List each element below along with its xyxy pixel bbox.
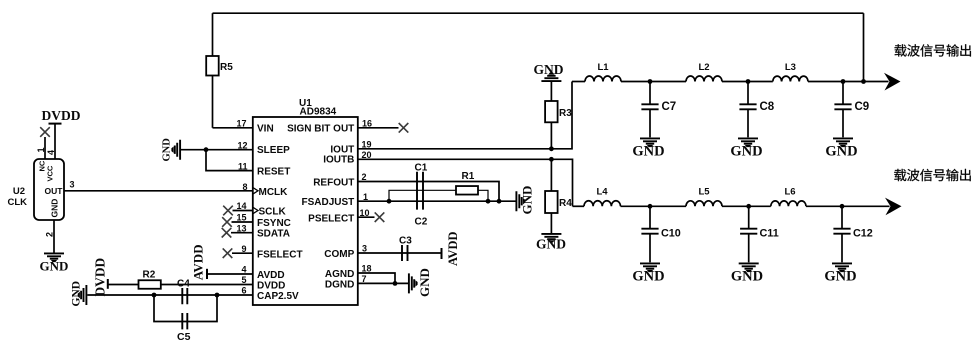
svg-text:FSYNC: FSYNC <box>257 218 291 229</box>
svg-text:RESET: RESET <box>257 166 290 177</box>
U1 pin label AVDD <box>257 270 285 281</box>
wire COMP pin 3 <box>358 252 442 254</box>
pin number 8 <box>242 182 247 192</box>
svg-text:DVDD: DVDD <box>42 108 81 123</box>
no-connect X pin 9 <box>223 248 253 258</box>
U1 pin label AGND <box>325 269 354 280</box>
svg-text:C12: C12 <box>853 228 873 240</box>
svg-text:7: 7 <box>362 274 367 284</box>
svg-text:8: 8 <box>242 182 247 192</box>
wire U2 pin 2 to ground <box>53 220 55 253</box>
junction R3 on IOUT <box>549 146 554 151</box>
svg-text:4: 4 <box>46 150 56 155</box>
ground below C11 <box>731 263 763 284</box>
svg-text:AVDD: AVDD <box>446 232 460 267</box>
no-connect X pin 14 <box>223 206 253 216</box>
svg-text:C10: C10 <box>661 228 681 240</box>
wire decoupling loop <box>154 295 217 322</box>
capacitor C12 <box>833 206 872 262</box>
svg-text:12: 12 <box>237 140 247 150</box>
U1 pin label SDATA <box>257 229 290 240</box>
svg-text:C8: C8 <box>760 101 775 113</box>
pin number 4 of U2 <box>46 150 56 155</box>
ground at CAP2.5V <box>71 281 87 307</box>
svg-text:PSELECT: PSELECT <box>308 213 354 224</box>
wire SLEEP to ground <box>181 149 253 151</box>
junction AGND-DGND <box>393 281 398 286</box>
svg-text:AD9834: AD9834 <box>300 107 337 118</box>
arrow bottom output <box>885 198 902 216</box>
svg-text:13: 13 <box>236 223 246 233</box>
U1 pin label IOUT <box>330 144 354 155</box>
svg-text:GND: GND <box>520 186 535 215</box>
svg-text:COMP: COMP <box>324 249 354 260</box>
power DVDD for U2 <box>42 108 81 159</box>
svg-text:SLEEP: SLEEP <box>257 145 290 156</box>
U1 pin label SCLK <box>253 207 287 218</box>
pin number 16 <box>362 119 372 129</box>
U2 pin name NC <box>38 160 47 171</box>
svg-text:MCLK: MCLK <box>259 187 289 198</box>
svg-text:GND: GND <box>534 62 564 77</box>
pin number 3 of U2 <box>70 180 75 190</box>
power DVDD for pin 5 <box>93 257 139 296</box>
svg-text:VIN: VIN <box>257 123 274 134</box>
svg-text:1: 1 <box>36 147 46 152</box>
pin number 7 <box>362 274 367 284</box>
svg-text:3: 3 <box>70 180 75 190</box>
svg-text:REFOUT: REFOUT <box>313 178 354 189</box>
ground at SLEEP <box>162 138 181 162</box>
capacitor C11 <box>740 206 779 262</box>
svg-text:VCC: VCC <box>46 165 55 181</box>
svg-text:C4: C4 <box>177 279 190 290</box>
pin number 3 <box>362 244 367 254</box>
capacitor C2 <box>415 190 428 227</box>
svg-text:OUT: OUT <box>45 186 64 196</box>
svg-text:U2: U2 <box>13 186 25 197</box>
svg-text:GND: GND <box>632 143 664 159</box>
svg-text:L6: L6 <box>784 187 795 198</box>
svg-text:SIGN BIT OUT: SIGN BIT OUT <box>287 123 354 134</box>
power AVDD for pin 4 <box>191 244 253 280</box>
U2 pin name VCC <box>46 165 55 181</box>
label bottom carrier output <box>894 169 971 181</box>
pin number 1 <box>363 192 368 202</box>
no-connect X pin 15 <box>222 217 253 227</box>
junction C4 loop left <box>152 293 157 298</box>
inductor L6 <box>771 187 806 207</box>
wire AGND pin 18 <box>358 273 395 283</box>
capacitor C3 <box>399 236 412 262</box>
wire pin 16 stub <box>358 127 399 129</box>
U1 pin label SIGN BIT OUT <box>287 123 354 134</box>
no-connect X pin 13 <box>222 228 253 238</box>
capacitor C1 <box>415 162 428 190</box>
ground below C10 <box>632 263 664 284</box>
U1 pin label FSADJUST <box>302 197 355 208</box>
svg-text:4: 4 <box>241 265 246 275</box>
pin number 18 <box>362 264 372 274</box>
svg-text:AVDD: AVDD <box>191 244 206 280</box>
svg-text:2: 2 <box>45 232 55 237</box>
svg-text:R4: R4 <box>559 198 572 209</box>
pin number 20 <box>362 150 372 160</box>
no-connect X on U2 pin 1 <box>40 127 50 137</box>
svg-text:GND: GND <box>162 138 173 162</box>
wire DGND pin 7 <box>358 282 408 284</box>
inductor L4 <box>584 187 620 207</box>
resistor R5 <box>206 56 233 76</box>
wire U2 OUT to MCLK <box>64 190 253 192</box>
svg-text:C1: C1 <box>415 162 428 173</box>
capacitor C5 <box>177 313 191 343</box>
wire ground to R3 <box>550 82 552 101</box>
svg-text:GND: GND <box>632 269 664 285</box>
junction REFOUT drop <box>497 199 502 204</box>
svg-text:DGND: DGND <box>325 279 354 290</box>
junction R4 on IOUTB <box>549 157 554 162</box>
U2 pin name GND <box>50 199 60 218</box>
no-connect X pin 10 <box>375 212 385 222</box>
capacitor C10 <box>641 206 680 262</box>
ground below R4 <box>536 234 566 252</box>
capacitor C9 <box>834 82 869 138</box>
svg-text:GND: GND <box>40 259 69 274</box>
svg-text:SDATA: SDATA <box>257 229 290 240</box>
U2 reference label <box>7 186 27 208</box>
pin number 1 of U2 <box>36 147 46 152</box>
U1 pin label FSYNC <box>257 218 291 229</box>
svg-text:GND: GND <box>825 143 857 159</box>
inductor L3 <box>773 62 808 82</box>
pin number 2 <box>362 172 367 182</box>
U1 pin label DGND <box>325 279 354 290</box>
wire R3 to IOUT <box>550 122 552 149</box>
wire CAP2.5V pin 6 <box>87 294 253 296</box>
pin number 14 <box>236 201 246 211</box>
ground below C12 <box>824 263 856 284</box>
svg-text:14: 14 <box>236 201 246 211</box>
svg-text:R1: R1 <box>462 171 475 182</box>
junction C4 loop right <box>215 293 220 298</box>
svg-text:GND: GND <box>824 269 856 285</box>
capacitor C8 <box>739 82 774 138</box>
svg-text:15: 15 <box>236 213 246 223</box>
resistor R2 <box>139 270 161 289</box>
label top carrier output <box>895 44 971 56</box>
wire IOUT pin 19 <box>358 82 572 149</box>
junction on SLEEP wire <box>204 147 209 152</box>
resistor R1 <box>456 171 478 195</box>
pin number 19 <box>362 140 372 150</box>
svg-text:GND: GND <box>71 281 83 307</box>
svg-text:R5: R5 <box>220 62 233 73</box>
svg-text:FSELECT: FSELECT <box>257 249 303 260</box>
inductor L5 <box>686 187 722 207</box>
ground below C9 <box>825 138 857 159</box>
junction C12 <box>840 204 845 209</box>
pin number 6 <box>241 286 246 296</box>
U1 pin label MCLK <box>253 187 288 198</box>
wire top feedback from R5 to output node <box>213 12 864 14</box>
svg-text:SCLK: SCLK <box>259 207 287 218</box>
junction C11 <box>746 204 751 209</box>
ground below C7 <box>632 138 664 159</box>
junction C9 <box>841 79 846 84</box>
wire R4 to ground <box>550 213 552 233</box>
U1 pin label VIN <box>257 123 274 134</box>
wire VIN pin 17 <box>213 127 253 129</box>
svg-text:IOUTB: IOUTB <box>323 154 354 165</box>
capacitor C7 <box>641 82 676 138</box>
svg-text:CAP2.5V: CAP2.5V <box>257 291 299 302</box>
svg-text:17: 17 <box>236 119 246 129</box>
U2 pin name OUT <box>45 186 64 196</box>
inductor L2 <box>686 62 722 82</box>
U1 reference label <box>299 98 337 118</box>
wire top filter line <box>572 81 889 83</box>
wire R2 to DVDD pin 5 <box>161 284 253 286</box>
junction top output node <box>861 79 866 84</box>
junction C7 <box>648 79 653 84</box>
junction FSADJUST left <box>387 199 392 204</box>
pin number 9 <box>241 244 246 254</box>
wire R5 top <box>212 13 214 56</box>
svg-text:18: 18 <box>362 264 372 274</box>
svg-text:GND: GND <box>50 199 60 218</box>
svg-text:AVDD: AVDD <box>257 270 285 281</box>
ground below U2 <box>40 253 69 273</box>
oscillator U2 <box>34 159 64 220</box>
svg-text:CLK: CLK <box>7 197 27 208</box>
wire PSELECT stub <box>358 216 375 218</box>
svg-text:L2: L2 <box>698 62 709 73</box>
pin number 5 <box>241 275 246 285</box>
wire RESET branch <box>206 150 253 171</box>
svg-text:C9: C9 <box>855 101 870 113</box>
U1 pin label PSELECT <box>308 213 354 224</box>
pin number 13 <box>236 223 246 233</box>
svg-text:9: 9 <box>241 244 246 254</box>
U1 pin label COMP <box>324 249 354 260</box>
capacitor C4 <box>177 279 190 305</box>
wire bottom filter line <box>573 205 890 207</box>
U1 pin label FSELECT <box>257 249 303 260</box>
svg-text:L4: L4 <box>596 187 608 198</box>
wire U2 pin 1 stub <box>44 137 46 159</box>
U1 pin label REFOUT <box>313 178 354 189</box>
pin number 10 <box>360 208 370 218</box>
svg-text:10: 10 <box>360 208 370 218</box>
pin number 4 <box>241 265 246 275</box>
arrow top output <box>884 73 901 91</box>
power AVDD at COMP <box>442 232 461 267</box>
svg-text:GND: GND <box>536 237 566 252</box>
svg-text:5: 5 <box>241 275 246 285</box>
svg-text:6: 6 <box>241 286 246 296</box>
svg-text:11: 11 <box>238 161 248 171</box>
U1 pin label CAP2.5V <box>257 291 299 302</box>
U1 pin label IOUTB <box>323 154 354 165</box>
U1 pin label RESET <box>257 166 290 177</box>
svg-text:L1: L1 <box>597 62 609 73</box>
svg-text:C2: C2 <box>415 217 428 228</box>
wire IOUTB to R4 <box>550 159 552 191</box>
wire IOUTB pin 20 <box>358 159 573 206</box>
pin number 11 <box>238 161 248 171</box>
svg-text:R3: R3 <box>559 108 572 119</box>
svg-text:L3: L3 <box>785 62 796 73</box>
junction R1 right <box>486 199 491 204</box>
junction C10 <box>648 204 653 209</box>
svg-text:C11: C11 <box>760 228 779 240</box>
svg-text:C5: C5 <box>177 331 191 343</box>
op-chip U1 AD9834 body <box>253 117 358 305</box>
ground at DGND <box>409 268 432 297</box>
wire R5 bottom to VIN <box>212 76 214 128</box>
wire R1 bypass right <box>478 190 488 201</box>
svg-text:DVDD: DVDD <box>93 257 108 296</box>
svg-text:FSADJUST: FSADJUST <box>302 197 355 208</box>
ground below C8 <box>730 138 762 159</box>
ground at FSADJUST net <box>516 186 534 215</box>
wire REFOUT pin 2 <box>358 182 499 202</box>
wire FSADJUST pin 1 <box>358 200 516 202</box>
pin number 17 <box>236 119 246 129</box>
no-connect X pin 16 <box>399 123 409 133</box>
pin number 12 <box>237 140 247 150</box>
svg-text:3: 3 <box>362 244 367 254</box>
wire top feedback right drop <box>863 13 865 81</box>
svg-text:C7: C7 <box>662 101 677 113</box>
ground above R3 <box>534 62 564 81</box>
svg-text:L5: L5 <box>698 187 710 198</box>
svg-text:R2: R2 <box>143 270 156 281</box>
pin number 15 <box>236 213 246 223</box>
resistor R3 <box>545 101 572 122</box>
svg-text:GND: GND <box>417 268 432 297</box>
resistor R4 <box>545 191 572 213</box>
pin number 2 of U2 <box>45 232 55 237</box>
svg-text:GND: GND <box>730 143 762 159</box>
U1 pin label DVDD <box>257 281 285 292</box>
svg-text:GND: GND <box>731 269 763 285</box>
wire R1 bypass left <box>389 190 456 201</box>
U1 pin label SLEEP <box>257 145 290 156</box>
junction C8 <box>746 79 751 84</box>
inductor L1 <box>585 62 621 82</box>
svg-text:C3: C3 <box>399 236 412 247</box>
